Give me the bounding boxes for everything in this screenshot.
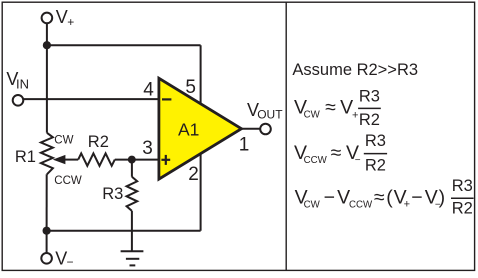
svg-text:(: ( (386, 187, 393, 209)
op-amp inverting sign (162, 98, 171, 100)
svg-text:≈: ≈ (374, 187, 385, 209)
svg-text:+: + (67, 15, 74, 29)
panel divider (285, 2, 287, 270)
svg-text:OUT: OUT (257, 108, 283, 122)
junction node bottom (43, 227, 51, 235)
terminal V+ (42, 13, 53, 24)
wire: bottom rail (47, 230, 201, 232)
R1 wiper arrow (53, 155, 66, 164)
svg-text:Assume R2>>R3: Assume R2>>R3 (292, 61, 418, 79)
svg-text:IN: IN (16, 76, 29, 91)
svg-text:R3: R3 (452, 177, 473, 195)
svg-text:≈: ≈ (325, 97, 336, 119)
svg-text:CCW: CCW (349, 200, 373, 211)
wire: top junction down to R1 (46, 45, 48, 133)
svg-text:R2: R2 (452, 200, 473, 218)
svg-text:3: 3 (142, 138, 153, 159)
terminal V- (41, 253, 52, 264)
wire: R2 to mid junction (115, 159, 132, 161)
svg-text:4: 4 (143, 79, 154, 100)
svg-text:R3: R3 (102, 185, 123, 203)
svg-text:V: V (56, 7, 68, 27)
wire: R3 bottom to ground (131, 211, 133, 251)
wire: top rail to op-amp supply corner (47, 44, 201, 46)
wire: bottom junction to V- terminal (46, 231, 48, 253)
resistor R3 (127, 177, 138, 211)
svg-text:2: 2 (188, 164, 199, 185)
svg-text:CW: CW (304, 200, 321, 211)
svg-text:CCW: CCW (54, 175, 82, 187)
svg-text:): ) (439, 187, 446, 209)
equation 3: Vcw - Vccw approx (V+ - V-) R3/R2 (295, 177, 474, 218)
wire: wiper arrow tail to R2 (64, 159, 79, 161)
svg-text:−: − (67, 255, 74, 269)
equation 2: Vccw approx V- R3/R2 (294, 132, 387, 175)
svg-text:−: − (355, 155, 361, 166)
svg-text:CW: CW (304, 110, 321, 121)
svg-text:−: − (411, 187, 422, 209)
resistor R2 (78, 153, 115, 165)
wire: mid junction down to R3 (131, 160, 133, 177)
svg-text:1: 1 (239, 134, 250, 155)
terminal VOUT (260, 124, 271, 135)
svg-text:V: V (55, 248, 67, 268)
op-amp U1 triangle (159, 78, 242, 179)
svg-text:R2: R2 (88, 133, 109, 151)
ground symbol (121, 251, 144, 265)
op-amp non-inverting sign (161, 155, 170, 165)
svg-text:R3: R3 (359, 88, 380, 106)
svg-text:R1: R1 (15, 148, 36, 166)
svg-text:5: 5 (185, 77, 196, 98)
wire: op-amp output to VOUT terminal (241, 128, 260, 130)
junction node top (43, 41, 51, 49)
svg-text:R2: R2 (365, 156, 386, 174)
terminal VIN (13, 95, 24, 106)
svg-text:−: − (324, 187, 335, 209)
potentiometer R1 (41, 133, 53, 175)
svg-text:R2: R2 (359, 111, 380, 129)
wire: mid junction to pin 3 (132, 159, 159, 161)
svg-text:A1: A1 (178, 120, 199, 140)
svg-text:CCW: CCW (304, 155, 328, 166)
svg-text:R3: R3 (365, 132, 386, 150)
wire: R1 bottom to bottom junction (46, 174, 48, 230)
svg-text:+: + (404, 198, 410, 210)
wire: right supply rail (pin5 to pin2) (200, 45, 202, 231)
wire: V+ terminal to top junction (46, 23, 48, 45)
svg-text:CW: CW (54, 135, 73, 147)
svg-text:≈: ≈ (331, 142, 342, 164)
equation 1: Vcw approx V+ R3/R2 (294, 88, 381, 130)
wire: VIN to inverting input pin 4 (23, 98, 158, 100)
junction node mid (pin 3) (128, 156, 136, 164)
svg-text:+: + (352, 109, 358, 121)
